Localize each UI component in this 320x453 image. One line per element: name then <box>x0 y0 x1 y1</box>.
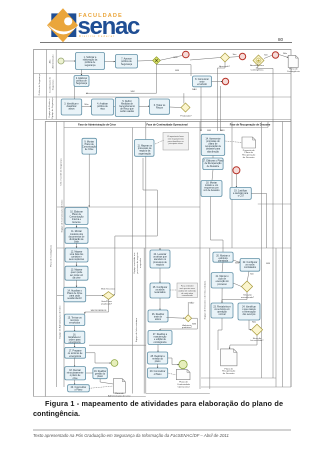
svg-text:de Desastre: de Desastre <box>243 156 256 159</box>
svg-text:Sim: Sim <box>233 54 237 56</box>
wire <box>114 105 116 107</box>
svg-text:elaboração da: elaboração da <box>83 59 98 62</box>
phase divider x232 <box>231 122 233 249</box>
wire 14A to doc <box>225 141 242 143</box>
annotation 2 <box>177 283 198 298</box>
svg-text:Não: Não <box>84 103 89 106</box>
svg-text:uma lista dos: uma lista dos <box>70 253 84 256</box>
svg-text:Figura 1 - mapeamento de ativi: Figura 1 - mapeamento de atividades para… <box>45 399 283 408</box>
svg-text:emergência: emergência <box>69 341 82 344</box>
svg-text:recuperação de: recuperação de <box>205 145 222 148</box>
svg-text:os serviços em: os serviços em <box>214 308 229 311</box>
lane line y295 left <box>57 295 64 297</box>
bottom line y393.5 mid <box>146 393 210 395</box>
svg-text:Coordenação de: Coordenação de <box>49 76 52 93</box>
gateway G2 Aprovado <box>221 53 230 62</box>
svg-text:Sim: Sim <box>264 54 268 56</box>
svg-text:Gerenciamento: Gerenciamento <box>119 105 135 108</box>
lane line y248 <box>57 247 291 249</box>
wire 222 down <box>218 62 226 131</box>
svg-text:Plano de Contingência: Plano de Contingência <box>50 244 53 267</box>
svg-text:documentos de: documentos de <box>69 235 85 238</box>
svg-text:22. Configurar: 22. Configurar <box>243 261 258 264</box>
svg-text:serão usadas: serão usadas <box>120 110 135 113</box>
wire 14A-17A <box>212 156 214 159</box>
annotation 1 <box>163 133 189 151</box>
wire 17A-18A <box>212 170 213 181</box>
wire 23R down <box>218 318 222 350</box>
svg-text:ser porta voz: ser porta voz <box>70 274 84 277</box>
svg-text:e edição de: e edição de <box>154 338 167 341</box>
svg-text:plano: plano <box>97 376 103 378</box>
svg-text:Segurança: Segurança <box>121 63 133 66</box>
svg-text:11. Mapear os: 11. Mapear os <box>137 145 152 148</box>
svg-text:técnicos: técnicos <box>70 319 79 322</box>
svg-text:Externa: Externa <box>73 221 82 224</box>
wire 11 down <box>114 158 158 296</box>
phase band edge x268 <box>267 122 269 128</box>
svg-text:operação: operação <box>217 311 227 314</box>
svg-text:10. Elaborar: 10. Elaborar <box>70 210 83 213</box>
top label column border <box>45 50 47 120</box>
svg-text:Segurança: Segurança <box>52 79 55 90</box>
svg-text:processo: processo <box>217 283 227 286</box>
svg-text:Sim: Sim <box>250 274 254 276</box>
task 1 Solicitar <box>76 53 105 70</box>
lane sub-line y345 <box>89 344 146 346</box>
gateway G8 <box>251 324 262 335</box>
wire G5 down <box>85 299 109 313</box>
wire to red3 <box>264 55 272 58</box>
svg-text:Operacional: Operacional <box>178 385 190 388</box>
red event CSI <box>233 167 240 174</box>
svg-text:Plano de Crise: Plano de Crise <box>67 292 83 295</box>
task 14A Apresentar propostas <box>201 134 224 155</box>
wire 17 to green <box>86 353 111 363</box>
svg-text:voz de desastre: voz de desastre <box>203 189 220 192</box>
wire to red2 <box>230 56 240 59</box>
inner vertical x262 <box>261 122 263 379</box>
task 2 Elaborar politica <box>74 76 89 87</box>
svg-text:NÃO: NÃO <box>189 302 194 305</box>
svg-text:divulgação de: divulgação de <box>69 238 84 241</box>
task 24 Levantar ativos <box>150 250 170 268</box>
svg-text:21. Montar o: 21. Montar o <box>216 275 230 278</box>
sub-pool label column <box>56 122 58 388</box>
svg-text:Não: Não <box>283 52 288 55</box>
svg-text:13. Mapear: 13. Mapear <box>71 269 83 272</box>
svg-text:Distrito Federal: Distrito Federal <box>79 34 115 38</box>
wire G6 down <box>160 318 197 330</box>
right border lower segment <box>290 120 292 388</box>
wire G7 left <box>233 283 241 287</box>
svg-text:execução do: execução do <box>216 280 230 283</box>
end event red 3 <box>272 52 278 58</box>
wire <box>159 298 161 310</box>
end event red 2 <box>239 53 245 59</box>
svg-text:Estabelecer: Estabelecer <box>69 336 81 339</box>
svg-text:política de: política de <box>97 105 108 108</box>
wire <box>139 105 149 107</box>
svg-text:os técnicos de: os técnicos de <box>68 352 83 355</box>
gateway G7 <box>241 281 252 292</box>
svg-text:classificar: classificar <box>66 105 76 108</box>
svg-text:SIM: SIM <box>207 130 211 132</box>
svg-text:os ativos que: os ativos que <box>153 256 167 259</box>
task 6 Tratar riscos <box>150 99 170 114</box>
green event 2 <box>179 360 187 368</box>
svg-text:levantados: levantados <box>154 291 166 294</box>
wire 22R down to G7 <box>247 271 249 281</box>
task 18 Revisar minuciosamente <box>65 367 86 380</box>
gateway G4 Finalizado <box>181 103 190 112</box>
svg-text:planejada: planejada <box>218 261 229 263</box>
svg-text:17. Elaborar o Plano: 17. Elaborar o Plano <box>203 160 225 163</box>
svg-text:8. Comunicar: 8. Comunicar <box>195 78 209 81</box>
svg-text:Administração de Crise: Administração de Crise <box>108 395 131 398</box>
task 27 Realizar manutencao <box>148 331 172 345</box>
svg-text:risco: risco <box>100 108 106 111</box>
svg-text:SIM DIVERSOS: SIM DIVERSOS <box>91 310 107 312</box>
svg-text:dos serviços: dos serviços <box>243 313 257 316</box>
lane divider y73.5 <box>34 73 292 75</box>
wire <box>74 380 76 385</box>
wire task2 to task3 <box>74 87 76 100</box>
wire 24R down to G8 <box>249 320 251 330</box>
svg-text:29. Concretizar: 29. Concretizar <box>150 370 166 373</box>
svg-text:estrutura: estrutura <box>218 257 228 260</box>
footer rule <box>33 429 291 431</box>
svg-text:4. Analisar: 4. Analisar <box>97 103 108 106</box>
task 29 Concretizar <box>148 368 168 378</box>
lane divider y119.5 <box>34 119 292 121</box>
inner vertical x144 <box>143 248 145 394</box>
wire <box>76 243 78 248</box>
wire 9 down <box>88 154 90 207</box>
wire <box>159 268 161 283</box>
wire <box>222 262 223 272</box>
svg-text:Fase de Continuidade Operacion: Fase de Continuidade Operacional <box>146 124 187 127</box>
svg-text:revisão do: revisão do <box>152 357 163 360</box>
svg-text:propostas do: propostas do <box>206 140 220 143</box>
wire 21R-23R <box>221 288 223 303</box>
svg-text:desastre para: desastre para <box>206 148 221 151</box>
wire 18-19 <box>86 372 93 374</box>
task 13 Mapear porta voz <box>65 266 88 280</box>
bottom line y387 right <box>201 386 291 388</box>
svg-text:15. Treinar os: 15. Treinar os <box>68 317 83 320</box>
task 17A Elaborar plano recup <box>203 158 225 170</box>
svg-text:6. Tratar os: 6. Tratar os <box>154 104 166 107</box>
svg-text:o Plano: o Plano <box>75 389 84 391</box>
svg-text:contingência.: contingência. <box>33 409 80 418</box>
svg-text:plano: plano <box>155 361 161 363</box>
bottom line y378 right <box>201 377 276 379</box>
doc plano continuidade <box>176 369 190 388</box>
svg-text:para cada: para cada <box>70 295 81 298</box>
svg-text:Equipe de Administração de Cri: Equipe de Administração de Crise <box>59 305 62 339</box>
task 10 Elaborar plano comunicacao <box>65 208 88 225</box>
task 3 Identificar <box>61 99 81 115</box>
end event red <box>183 51 190 58</box>
svg-text:7. Aprovar: 7. Aprovar <box>121 58 132 61</box>
svg-text:19. Realizar: 19. Realizar <box>94 370 106 373</box>
svg-text:processos de negócio: processos de negócio <box>136 252 139 274</box>
svg-text:14. Apresentar: 14. Apresentar <box>206 137 221 140</box>
task 18A Montar modelo <box>201 181 222 197</box>
end event red lane2 <box>222 78 228 84</box>
task 7 Aprovar <box>116 55 138 69</box>
task 11L Montar modelos <box>65 228 88 244</box>
svg-text:a decisão para: a decisão para <box>233 192 249 195</box>
svg-text:foi resolvida?: foi resolvida? <box>251 339 265 342</box>
svg-text:negócio: negócio <box>156 264 165 266</box>
svg-text:NÃO: NÃO <box>220 129 225 132</box>
svg-text:24. Levantar: 24. Levantar <box>154 253 167 256</box>
svg-text:Equipe de Infra-estrutura: Equipe de Infra-estrutura <box>135 317 138 342</box>
wire 19A right <box>251 193 266 248</box>
svg-text:consultando: consultando <box>182 294 194 297</box>
svg-text:Administração: Administração <box>52 54 55 69</box>
svg-text:Equipe de Desastre e de Infra-: Equipe de Desastre e de Infra-estrutura <box>204 280 207 319</box>
inner vertical x133 <box>132 128 134 394</box>
wire <box>157 364 159 368</box>
svg-text:os ativos: os ativos <box>155 289 165 292</box>
lane line y204 right <box>258 203 291 205</box>
task 23R Restabelecer <box>211 303 233 318</box>
svg-text:processos de: processos de <box>138 147 152 150</box>
svg-text:Segurança: Segurança <box>76 82 88 85</box>
task 19 Realizar gestao <box>93 368 107 379</box>
svg-text:NÃO: NÃO <box>192 88 197 91</box>
svg-text:Equipe de Comunicação de Crise: Equipe de Comunicação de Crise <box>61 199 64 232</box>
svg-text:SIM: SIM <box>131 91 135 93</box>
svg-text:seus suplentes: seus suplentes <box>69 258 85 261</box>
svg-text:emergência: emergência <box>69 355 82 358</box>
svg-text:normalizada?: normalizada? <box>241 296 255 299</box>
svg-text:27. Realizar a: 27. Realizar a <box>153 333 168 336</box>
svg-text:alta direção: alta direção <box>207 150 220 153</box>
wire <box>76 262 78 266</box>
svg-text:mapeados: mapeados <box>140 257 142 268</box>
svg-text:contingência: contingência <box>154 341 168 344</box>
svg-text:ativos: ativos <box>155 318 162 321</box>
wire 14L to G5 <box>86 295 104 297</box>
svg-text:de Desastre: de Desastre <box>207 165 220 168</box>
svg-text:processos de: processos de <box>153 261 167 264</box>
svg-text:Não: Não <box>252 321 257 324</box>
svg-text:18. Montar: 18. Montar <box>206 181 217 184</box>
wire ann2 <box>170 289 177 291</box>
svg-text:crise: crise <box>73 377 79 380</box>
wire <box>82 105 92 107</box>
svg-text:24. Identificar: 24. Identificar <box>242 305 256 308</box>
svg-text:Equipe envolvida nos: Equipe envolvida nos <box>134 252 136 274</box>
svg-text:1. Solicitar a: 1. Solicitar a <box>84 56 97 59</box>
logo senac mark <box>47 8 78 42</box>
sub-pool Plano de Contingência <box>45 122 291 397</box>
svg-text:segurança: segurança <box>85 64 96 67</box>
task 15 Treinar tecnicos <box>65 314 85 326</box>
svg-text:23. Restabelecer: 23. Restabelecer <box>213 305 231 308</box>
wire <box>74 343 76 347</box>
svg-text:Interna e: Interna e <box>72 218 82 221</box>
svg-text:25. Configurar: 25. Configurar <box>153 286 168 289</box>
lane divider y97 <box>34 96 292 98</box>
svg-text:setor: setor <box>199 80 204 83</box>
svg-text:teste de: teste de <box>154 315 163 318</box>
svg-text:14. Atualizar o: 14. Atualizar o <box>67 289 82 292</box>
svg-text:o Plano: o Plano <box>154 374 163 376</box>
svg-text:SIM: SIM <box>235 263 239 265</box>
task 16 Estabelecer ordem <box>65 331 85 344</box>
svg-text:Equipe de Redes e: Equipe de Redes e <box>49 98 51 117</box>
task 28 Realizar revisao <box>148 352 168 364</box>
gateway G6 <box>185 315 192 322</box>
svg-text:política de: política de <box>121 60 132 63</box>
svg-text:Riscos: Riscos <box>156 107 164 109</box>
task 4 Analisar <box>92 99 114 115</box>
svg-text:de Desastre: de Desastre <box>223 372 236 375</box>
green event mid <box>111 360 118 367</box>
wire <box>76 225 78 228</box>
inner vertical x276 <box>275 248 277 387</box>
wire G4 up loop <box>183 93 185 103</box>
svg-text:SIM: SIM <box>192 324 196 326</box>
task 11 Mapear processos <box>135 140 155 157</box>
wire G1 down <box>86 64 157 93</box>
inner vertical x282 <box>282 122 284 388</box>
task 9 Montar Plano Comunicacao <box>82 138 97 154</box>
wire Nao to end <box>160 56 182 61</box>
svg-text:12. Mapear: 12. Mapear <box>71 250 83 253</box>
svg-text:atendem os: atendem os <box>154 258 167 261</box>
task 22R Configurar novos <box>240 259 260 272</box>
wire <box>212 81 223 83</box>
svg-text:de Recuperação: de Recuperação <box>205 162 223 165</box>
task 19A Justificar <box>230 187 251 199</box>
nested pool label col x201-210 <box>199 122 201 390</box>
phase header band bottom <box>64 127 268 129</box>
svg-text:o CSI: o CSI <box>238 196 244 198</box>
svg-text:contatos e: contatos e <box>71 256 82 259</box>
svg-text:SIM: SIM <box>266 263 270 265</box>
wire G1 to task8 <box>157 65 192 76</box>
outer pool border <box>34 50 292 397</box>
gateway G5 <box>103 292 113 300</box>
doc plano administracao <box>108 379 131 398</box>
svg-text:Finalizado?: Finalizado? <box>180 116 192 118</box>
event gateway G3 <box>253 55 264 66</box>
svg-text:da crise: da crise <box>72 276 81 279</box>
task 17 Preparar tecnicos <box>65 347 86 358</box>
svg-text:5. Definir: 5. Definir <box>122 100 131 103</box>
svg-text:CSI e Comitê de Segurança: CSI e Comitê de Segurança <box>60 158 63 186</box>
svg-text:organização: organização <box>138 152 151 155</box>
gateway G1 <box>153 57 161 65</box>
start event <box>58 58 64 64</box>
wire 158 down <box>159 248 161 250</box>
wire long x273 <box>258 64 273 378</box>
svg-text:atualizado?: atualizado? <box>101 303 113 306</box>
svg-text:SIM: SIM <box>175 70 179 72</box>
wire 28 to green <box>168 358 179 365</box>
wire task8 down <box>200 87 202 131</box>
task 8 Comunicar setor <box>193 76 212 87</box>
wire down from 18A <box>211 197 224 253</box>
svg-text:Alta: Alta <box>49 59 52 64</box>
wire G8 down-left <box>230 335 258 349</box>
task 25 Configurar ativos <box>150 283 170 298</box>
task 21R Montar ciclo <box>211 273 233 288</box>
svg-text:minuciosamente: minuciosamente <box>67 372 84 375</box>
svg-text:crise: crise <box>74 241 80 244</box>
task 20R Mostrar estrutura <box>213 252 233 262</box>
wire task2 up <box>81 70 83 76</box>
task 14L Atualizar plano crise <box>64 287 86 302</box>
svg-text:Fase de Recuperação de Desastr: Fase de Recuperação de Desastre <box>230 124 271 127</box>
svg-text:26. Realizar: 26. Realizar <box>152 313 164 316</box>
svg-text:Comunicação: Comunicação <box>69 216 84 219</box>
svg-text:principais ativos: principais ativos <box>169 142 183 145</box>
doc Plano de Contingencia <box>287 55 301 73</box>
svg-text:11. Montar: 11. Montar <box>71 230 82 233</box>
svg-text:20. Mostrar a: 20. Mostrar a <box>216 254 230 257</box>
wire to G6 <box>166 317 184 320</box>
svg-text:Contingência: Contingência <box>287 70 301 73</box>
svg-text:envolvidos: envolvidos <box>69 323 81 325</box>
svg-text:17. Preparar: 17. Preparar <box>69 350 82 353</box>
svg-text:Política de Segurança: Política de Segurança <box>38 73 41 95</box>
svg-text:ordem para: ordem para <box>69 339 81 342</box>
wire 29 to doc <box>168 373 177 375</box>
svg-text:normal: normal <box>218 313 226 316</box>
wire 19 down to doc <box>100 379 113 384</box>
svg-text:envolvido: envolvido <box>197 84 207 86</box>
doc plano recuperacao <box>221 349 238 375</box>
wire <box>170 106 182 109</box>
svg-text:28. Realizar a: 28. Realizar a <box>151 355 166 358</box>
wire 20 to doc <box>89 386 113 388</box>
svg-text:Fase de Administração de Crise: Fase de Administração de Crise <box>78 124 116 127</box>
wire G2 from <box>190 58 221 61</box>
wire Ba to Bc <box>233 260 240 263</box>
svg-text:contratados: contratados <box>244 266 257 269</box>
wire <box>157 345 159 353</box>
svg-text:Texto apresentado na Pós Gradu: Texto apresentado na Pós Graduação em Se… <box>33 433 229 438</box>
task 12 Mapear lista <box>65 248 88 262</box>
task 5 Definir medidas <box>115 98 139 117</box>
svg-text:política de: política de <box>85 61 96 64</box>
nested lane label column <box>63 122 65 388</box>
header rule <box>40 42 292 44</box>
wire <box>64 60 76 62</box>
task 26 Realizar teste <box>148 310 168 322</box>
wire red down <box>235 174 237 188</box>
task 24R Identificar causa <box>238 303 260 320</box>
svg-text:Equipe de Segurança: Equipe de Segurança <box>51 97 54 119</box>
svg-text:Web Terceiros: Web Terceiros <box>101 287 116 290</box>
svg-text:Contingência: Contingência <box>251 69 265 72</box>
wire ann <box>155 140 164 144</box>
wire <box>74 358 76 366</box>
wire <box>76 280 78 287</box>
doc proposta <box>242 137 256 159</box>
wire <box>74 326 76 332</box>
svg-text:3. Identificar e: 3. Identificar e <box>64 103 79 106</box>
svg-text:ativos: ativos <box>68 108 75 111</box>
svg-text:18. Revisar: 18. Revisar <box>69 369 81 372</box>
